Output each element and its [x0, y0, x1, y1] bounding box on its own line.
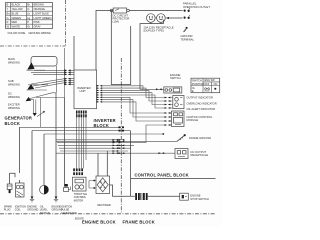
sub winding [8, 79, 48, 90]
throttle control motor pins [73, 168, 83, 175]
svg-text:E0937E: E0937E [75, 217, 84, 220]
svg-text:LIGHT BLUE: LIGHT BLUE [34, 11, 50, 15]
indicator box [173, 96, 184, 109]
svg-text:ENGINE BLOCK: ENGINE BLOCK [82, 220, 116, 225]
color code table [6, 3, 53, 36]
svg-text:BROWN: BROWN [34, 3, 44, 7]
svg-text:FRAME BLOCK: FRAME BLOCK [123, 220, 155, 225]
wire cluster rows [56, 139, 121, 141]
svg-text:B: B [7, 3, 9, 7]
frame ground [177, 134, 211, 141]
wire bundle rows left [20, 126, 122, 128]
wire to engine stop switch [148, 195, 180, 197]
wire rectifier to frame block [110, 185, 135, 196]
connector pair on dc wire [159, 152, 165, 154]
dc receptacle [175, 149, 208, 159]
wire protector left to down [96, 11, 113, 71]
svg-text:UNIT: UNIT [80, 89, 87, 93]
inverter right pins [97, 85, 103, 103]
rectifier wires [89, 181, 96, 189]
ignition coil [15, 180, 26, 212]
svg-text:G: G [7, 16, 9, 20]
svg-text:GROUND: GROUND [181, 34, 193, 38]
ground terminal [181, 27, 195, 42]
svg-text:BLOCK: BLOCK [5, 121, 21, 126]
dc circuit protector [110, 8, 129, 24]
ignition pulse generator [61, 184, 77, 215]
svg-text:Br: Br [27, 3, 30, 7]
svg-text:POSITION: POSITION [192, 83, 204, 86]
spark plug [4, 173, 15, 212]
wire protector to parallel outlet [129, 10, 182, 12]
main winding [8, 57, 57, 71]
generator block label [5, 111, 45, 126]
connector pairs indicators [165, 97, 173, 109]
svg-text:BLUE: BLUE [12, 11, 19, 15]
svg-text:ENG SW: ENG SW [205, 79, 216, 82]
svg-text:LIGHT GREEN: LIGHT GREEN [34, 16, 52, 20]
wire receptacle bottom loop [140, 20, 164, 90]
svg-text:CONTROL PANEL BLOCK: CONTROL PANEL BLOCK [135, 173, 189, 178]
block boundary dash-dot bottom horizontal [0, 213, 215, 215]
svg-text:OIL ALERT INDICATOR: OIL ALERT INDICATOR [187, 107, 216, 111]
svg-text:EXCITER: EXCITER [8, 103, 20, 107]
wire receptacle to parallel outlet 2 [169, 17, 182, 19]
svg-text:STOP SWITCH: STOP SWITCH [190, 197, 209, 201]
svg-text:GREEN: GREEN [12, 16, 21, 20]
svg-text:DC: DC [8, 92, 12, 96]
block boundary dash-dot center vertical [120, 58, 122, 213]
connector cluster [119, 126, 125, 131]
rectifier [93, 176, 111, 207]
throttle control motor [73, 177, 88, 202]
block boundary dash-dot top-left [0, 45, 66, 47]
svg-text:(DUPLEX TYPE): (DUPLEX TYPE) [144, 29, 164, 33]
svg-text:OUTPUT INDICATOR: OUTPUT INDICATOR [187, 96, 213, 100]
svg-text:FRAME GROUND: FRAME GROUND [189, 136, 211, 140]
exciter winding [8, 100, 37, 117]
svg-text:OFF: OFF [204, 83, 209, 86]
svg-text:RECTIFIER: RECTIFIER [98, 204, 111, 207]
svg-text:RECEPTACLE: RECEPTACLE [191, 153, 209, 157]
wire loop center-top [111, 11, 130, 85]
engine switch table [191, 78, 220, 93]
wire pin rows to panel [102, 86, 164, 90]
wire dc winding down [55, 93, 57, 200]
wire frame ground row [56, 140, 177, 142]
svg-text:WINDING: WINDING [8, 106, 20, 110]
svg-text:WINDING: WINDING [8, 60, 20, 64]
svg-text:WINDING: WINDING [8, 95, 20, 99]
svg-text:WINDING: WINDING [8, 82, 20, 86]
wire sub winding to inverter [31, 79, 65, 88]
svg-text:Gr: Gr [27, 25, 30, 29]
svg-text:TERMINAL: TERMINAL [181, 38, 195, 42]
svg-text:SUB: SUB [8, 79, 14, 83]
connector pairs icm [165, 112, 172, 126]
svg-text:PLUG: PLUG [4, 209, 11, 212]
svg-text:BLACK: BLACK [12, 3, 21, 7]
wire branch down to frame block [130, 131, 132, 197]
svg-text:ORANGE: ORANGE [34, 7, 46, 11]
svg-text:GRAY: GRAY [34, 25, 42, 29]
svg-text:MOTOR: MOTOR [74, 199, 83, 202]
inverter unit U1 [74, 70, 97, 109]
svg-text:SWITCH: SWITCH [40, 212, 50, 215]
ac receptacle duplex [144, 14, 174, 33]
svg-text:GROUND: GROUND [27, 209, 38, 212]
svg-text:RED: RED [12, 20, 18, 24]
ignition control module [172, 111, 185, 127]
svg-text:DC OUTPUT: DC OUTPUT [191, 150, 207, 154]
svg-text:SWITCH: SWITCH [170, 76, 181, 80]
inverter bottom pins [76, 111, 87, 118]
wire main winding to inverter [31, 70, 65, 74]
inverter block label [94, 118, 116, 128]
svg-text:P: P [27, 20, 29, 24]
svg-text:COLOR CODE: COLOR CODE [8, 31, 26, 35]
svg-text:GROUND WIRING: GROUND WIRING [29, 31, 51, 35]
svg-text:YELLOW: YELLOW [12, 7, 24, 11]
connector main winding [65, 69, 75, 75]
svg-text:O: O [27, 7, 29, 11]
parallel operation outlet [183, 2, 210, 19]
svg-text:Y: Y [7, 7, 9, 11]
svg-text:(10A): (10A) [113, 20, 120, 24]
svg-text:OVERLOAD INDICATOR: OVERLOAD INDICATOR [187, 101, 217, 105]
engine switch SW1 [164, 87, 182, 93]
noise filter coil frame block [135, 193, 147, 200]
engine ground 2 [52, 197, 63, 212]
engine ground 1 [27, 197, 38, 212]
wires inverter bottom to throttle pins [77, 114, 86, 169]
svg-text:ON: ON [214, 83, 218, 86]
connector sub winding [65, 78, 75, 86]
svg-text:Bu: Bu [7, 11, 11, 15]
svg-text:ENGINE: ENGINE [190, 193, 201, 197]
svg-text:GENERATOR: GENERATOR [61, 212, 77, 215]
wire stub left of inverter top [73, 36, 75, 70]
oil level switch [40, 185, 50, 215]
svg-text:OPERATION OUTLET: OPERATION OUTLET [183, 5, 210, 9]
svg-text:MODULE: MODULE [187, 118, 199, 122]
svg-text:WHITE: WHITE [12, 25, 21, 29]
svg-text:GENERATOR: GENERATOR [5, 116, 33, 121]
svg-text:PINK: PINK [34, 20, 40, 24]
wire exciter to bundle [36, 98, 65, 128]
svg-text:COIL: COIL [15, 209, 21, 212]
engine stop switch [180, 193, 209, 201]
svg-text:MAIN: MAIN [8, 57, 15, 61]
dc winding [8, 92, 56, 102]
svg-text:R: R [7, 20, 9, 24]
